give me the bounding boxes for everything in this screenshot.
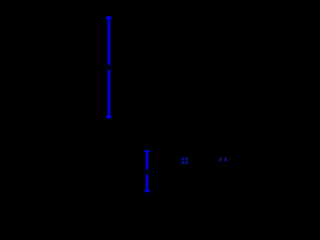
current source I1 (large, left) — [106, 18, 112, 117]
arrow wing dots of I1 — [106, 67, 112, 68]
top terminal bar of I1 — [106, 17, 112, 19]
bottom terminal bar of I1 — [106, 116, 112, 118]
top terminal bar of I2 — [144, 150, 150, 152]
wire (upper lead of I2) — [146, 151, 148, 170]
value label glyph "0" (left text) — [182, 158, 188, 165]
wire (lower lead of I2) — [146, 175, 148, 192]
wire (lower lead of I1) — [108, 70, 111, 117]
arrow wing dots of I2 — [144, 172, 150, 173]
current source I2 (small, lower) — [144, 151, 150, 191]
bottom terminal bar of I2 — [144, 190, 150, 192]
wire (upper lead of I1) — [108, 18, 111, 65]
value label glyph (right text) — [220, 158, 227, 162]
